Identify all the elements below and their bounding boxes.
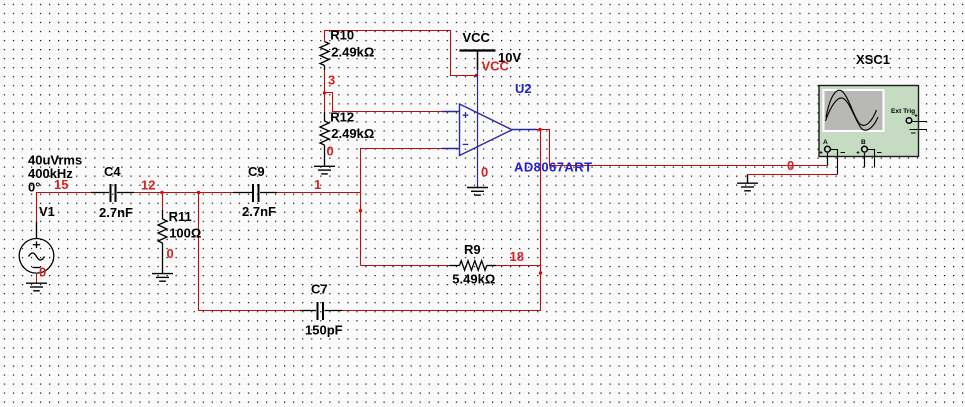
svg-text:0: 0 — [787, 158, 794, 173]
svg-text:12: 12 — [141, 178, 155, 193]
svg-text:R9: R9 — [464, 242, 481, 257]
wire vertical net 1 to op-amp minus input — [361, 149, 443, 266]
svg-text:U2: U2 — [515, 81, 532, 96]
svg-text:R12: R12 — [330, 109, 354, 124]
svg-text:100Ω: 100Ω — [169, 226, 201, 241]
svg-text:A: A — [823, 139, 828, 146]
svg-text:VCC: VCC — [482, 58, 510, 73]
op-amp U2 triangle — [442, 104, 537, 156]
svg-text:0: 0 — [481, 165, 488, 180]
svg-text:2.7nF: 2.7nF — [99, 205, 133, 220]
svg-text:18: 18 — [510, 249, 524, 264]
svg-text:1: 1 — [314, 177, 321, 192]
svg-text:5.49kΩ: 5.49kΩ — [452, 272, 495, 287]
ext trig connector — [906, 114, 927, 133]
wire R9 right net 18 — [496, 265, 541, 267]
resistor R10 — [320, 42, 329, 71]
svg-text:2.7nF: 2.7nF — [242, 204, 276, 219]
wire node 3 to plus input — [325, 70, 443, 112]
svg-text:C9: C9 — [248, 164, 265, 179]
svg-text:0°: 0° — [28, 180, 40, 195]
wire C7 branch left — [199, 193, 303, 311]
svg-text:0: 0 — [39, 265, 46, 280]
voltage source V1 symbol — [19, 222, 54, 274]
op-amp ground pin wire — [477, 146, 479, 187]
svg-text:C7: C7 — [311, 282, 328, 297]
svg-text:0: 0 — [167, 246, 174, 261]
ground below op-amp — [467, 188, 488, 196]
oscilloscope XSC1 body — [819, 86, 919, 157]
svg-text:R11: R11 — [169, 209, 192, 224]
svg-text:AD8067ART: AD8067ART — [514, 160, 592, 175]
svg-text:Ext Trig: Ext Trig — [891, 108, 915, 115]
svg-text:2.49kΩ: 2.49kΩ — [331, 126, 374, 141]
wire scope A minus to ground net 0 — [748, 174, 838, 176]
wire R10 top to VCC — [325, 31, 477, 76]
ground below R11 — [152, 274, 173, 282]
capacitor C7 — [300, 302, 342, 320]
svg-text:R10: R10 — [330, 28, 354, 43]
resistor R11 — [158, 210, 167, 273]
resistor R12 — [320, 112, 329, 166]
wire C9 to inverting input net 1 — [277, 192, 361, 194]
scope screen waveform — [826, 90, 879, 130]
svg-text:VCC: VCC — [463, 30, 491, 45]
svg-text:C4: C4 — [104, 164, 121, 179]
junction dot node 3 — [323, 91, 326, 94]
junction dot net 12 at C7 branch — [197, 191, 200, 194]
wire C4 to C9 net 12 — [134, 192, 233, 194]
junction dot net 1 vertical — [359, 209, 362, 212]
junction dot output vertical at R9 — [539, 271, 542, 274]
svg-text:2.49kΩ: 2.49kΩ — [331, 45, 374, 60]
svg-text:V1: V1 — [39, 204, 55, 219]
svg-text:15: 15 — [54, 177, 68, 192]
resistor R9 — [450, 261, 497, 271]
wire R9 left — [361, 265, 450, 267]
junction dot VCC — [475, 74, 478, 77]
junction dot output — [538, 128, 541, 131]
VCC power symbol — [460, 51, 496, 71]
svg-text:150pF: 150pF — [305, 323, 343, 338]
svg-text:B: B — [861, 139, 866, 146]
wire C7 right to output — [341, 130, 541, 311]
capacitor C4 — [91, 184, 134, 202]
svg-text:0: 0 — [327, 144, 334, 159]
scope channel A connector — [820, 146, 846, 174]
svg-text:3: 3 — [328, 73, 335, 88]
wire output to scope A — [537, 130, 828, 166]
svg-text:XSC1: XSC1 — [856, 52, 890, 67]
wire V1 to C4 main horizontal net 15 — [37, 193, 93, 239]
scope channel B connector — [857, 146, 882, 167]
junction dot net 12 at R11 — [160, 191, 163, 194]
capacitor C9 — [233, 184, 277, 202]
ground below V1 — [26, 273, 47, 291]
ground at scope — [737, 175, 758, 191]
op-amp U2 power pin wire — [477, 70, 479, 146]
wire R11 branch — [162, 193, 164, 212]
ground below R12 — [314, 166, 335, 174]
